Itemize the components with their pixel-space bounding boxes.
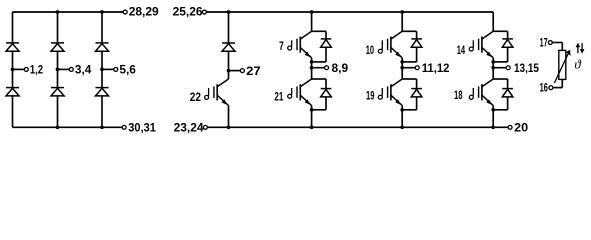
terminal 16 (549, 86, 553, 90)
label 20 (514, 121, 528, 135)
svg-text:11,12: 11,12 (422, 61, 450, 75)
svg-text:23,24: 23,24 (174, 121, 204, 135)
wire bridge leg3 mid-lower (101, 69, 103, 87)
junction diode return (phase V top) (400, 60, 404, 64)
junction DC+ at phase V leg (400, 10, 404, 14)
terminal 28,29 (123, 10, 127, 14)
junction DC- at phase U leg (310, 125, 314, 129)
thermistor down arrow (580, 43, 585, 54)
transistor (IGBT) 18 (469, 79, 493, 106)
label 28,29 (129, 5, 159, 19)
wire phase U leg to DC- (311, 106, 313, 128)
label 8,9 (332, 61, 349, 75)
wire bridge leg3 upper (101, 12, 103, 42)
label 3,4 (75, 63, 92, 77)
label 10 (366, 43, 375, 57)
thermistor up arrow (576, 43, 581, 54)
wire diode branch top (phase V) (416, 31, 418, 38)
junction DC+ at brake leg (227, 10, 231, 14)
wire bridge leg1 upper (12, 12, 14, 42)
wire phase W mid (492, 58, 494, 79)
node output junction (phase W) (491, 66, 506, 70)
terminal 3,4 (69, 67, 73, 71)
junction diode return (phase U top) (310, 60, 314, 64)
terminal 23,24 (203, 125, 207, 129)
diode D18 (antiparallel, phase W bottom) (502, 89, 513, 97)
terminal 1,2 (24, 67, 28, 71)
svg-text:19: 19 (366, 89, 375, 103)
terminal 20 (508, 125, 512, 129)
wire bridge leg1 lower (12, 96, 14, 127)
junction DC- at brake leg (227, 125, 231, 129)
svg-text:14: 14 (457, 43, 466, 57)
transistor (IGBT) 10 (378, 31, 402, 58)
wire diode branch to joint (phase U top) (312, 48, 326, 62)
diode D1t (bridge leg1 top) (6, 43, 19, 51)
wire phase U leg from DC+ (311, 12, 313, 31)
diode D14 (antiparallel, phase W top) (502, 39, 513, 47)
terminal 8,9 (325, 66, 329, 70)
wire DC+ rail of inverter (206, 11, 493, 13)
wire phase V leg from DC+ (401, 12, 403, 31)
wire terminal 17 to thermistor (552, 43, 562, 51)
terminal 13,15 (506, 66, 510, 70)
junction diode return (phase V bottom) (400, 108, 404, 112)
wire diode to joint (phase W bottom) (493, 97, 507, 110)
wire phase V leg to DC- (401, 106, 403, 128)
label 14 (457, 43, 466, 57)
node phase U top collector (312, 30, 326, 32)
diode D1b (bridge leg1 bottom) (6, 88, 19, 96)
wire diode branch to joint (phase W top) (493, 48, 507, 62)
svg-text:5,6: 5,6 (119, 63, 136, 77)
thermistor characteristic arrow (554, 50, 570, 83)
wire brake leg upper (228, 12, 230, 42)
wire diode to joint (phase U bottom) (312, 97, 326, 110)
wire terminal 16 to thermistor (553, 79, 562, 87)
svg-text:ϑ: ϑ (574, 57, 581, 72)
label 17 (540, 36, 548, 50)
wire bridge leg1 mid-lower (12, 69, 14, 87)
label 5,6 (119, 63, 136, 77)
label 30,31 (128, 121, 156, 135)
wire DC- rail of inverter (207, 126, 508, 128)
junction DC- at phase V leg (400, 125, 404, 129)
wire phase V mid (401, 58, 403, 79)
svg-text:30,31: 30,31 (128, 121, 156, 135)
wire phase W leg from DC+ (492, 12, 494, 31)
terminal 11,12 (415, 66, 419, 70)
svg-text:21: 21 (274, 89, 283, 103)
thermistor R(theta) body (559, 50, 566, 79)
wire diode branch to joint (phase V top) (402, 48, 416, 62)
junction on bridge + rail leg3 (100, 10, 104, 14)
svg-text:16: 16 (540, 81, 548, 95)
node AC tap 3,4 (56, 68, 70, 72)
label 7 (279, 39, 284, 53)
diode D2b (bridge leg2 bottom) (51, 88, 64, 96)
diode D10 (antiparallel, phase V top) (411, 39, 422, 47)
wire diode branch top (phase W) (507, 31, 509, 38)
wire bridge leg3 mid-upper (101, 51, 103, 69)
label 13,15 (514, 61, 539, 75)
transistor (IGBT) 21 (288, 79, 312, 106)
label 22 (190, 90, 201, 104)
wire brake IGBT emitter to DC- (228, 106, 230, 128)
svg-text:27: 27 (246, 64, 261, 78)
wire brake leg to node 27 (228, 51, 230, 70)
junction on bridge - rail leg3 (100, 125, 104, 129)
junction on bridge + rail leg2 (56, 10, 60, 14)
wire DC+ rail of rectifier bridge (13, 11, 124, 13)
diode D7 (antiparallel, phase U top) (321, 39, 332, 47)
wire diode branch bottom (phase U) (325, 79, 327, 88)
label 19 (366, 89, 375, 103)
wire bridge leg2 lower (57, 96, 59, 127)
svg-text:7: 7 (279, 39, 284, 53)
svg-text:1,2: 1,2 (30, 63, 43, 77)
label 23,24 (174, 121, 204, 135)
svg-text:20: 20 (514, 121, 528, 135)
diode D22 (brake freewheel) (222, 43, 235, 51)
label 16 (540, 81, 548, 95)
svg-text:18: 18 (454, 88, 463, 102)
svg-text:25,26: 25,26 (173, 5, 203, 19)
svg-text:8,9: 8,9 (332, 61, 349, 75)
node output junction (phase U) (310, 66, 325, 70)
node phase W bottom collector (493, 78, 507, 80)
node phase U bottom collector (312, 78, 326, 80)
junction DC- at phase W leg (491, 125, 495, 129)
wire diode branch bottom (phase V) (416, 79, 418, 88)
label 1,2 (30, 63, 43, 77)
diode D2t (bridge leg2 top) (51, 43, 64, 51)
junction on bridge - rail leg2 (56, 125, 60, 129)
label 18 (454, 88, 463, 102)
diode D21 (antiparallel, phase U bottom) (321, 89, 332, 97)
label 21 (274, 89, 283, 103)
svg-text:10: 10 (366, 43, 375, 57)
diode D3b (bridge leg3 bottom) (96, 88, 109, 96)
transistor (IGBT) 19 (378, 79, 402, 106)
wire bridge leg2 mid-lower (57, 69, 59, 87)
wire bridge leg3 lower (101, 96, 103, 127)
node phase V bottom collector (402, 78, 416, 80)
terminal 30,31 (122, 125, 126, 129)
transistor (IGBT) 7 (288, 31, 312, 58)
svg-text:22: 22 (190, 90, 201, 104)
wire bridge leg1 mid-upper (12, 51, 14, 69)
node phase W top collector (493, 30, 507, 32)
node AC tap 1,2 (11, 68, 25, 72)
wire node 27 to brake IGBT collector (228, 71, 230, 79)
label 11,12 (422, 61, 450, 75)
label 27 (246, 64, 261, 78)
svg-text:13,15: 13,15 (514, 61, 539, 75)
transistor (IGBT) 14 (469, 31, 493, 58)
wire diode branch top (phase U) (325, 31, 327, 38)
transistor (IGBT) 22 (205, 79, 229, 106)
wire diode branch bottom (phase W) (507, 79, 509, 88)
wire DC- rail of rectifier bridge (13, 126, 123, 128)
terminal 25,26 (202, 10, 206, 14)
junction DC+ at phase U leg (310, 10, 314, 14)
diode D19 (antiparallel, phase V bottom) (411, 89, 422, 97)
node phase V top collector (402, 30, 416, 32)
svg-text:3,4: 3,4 (75, 63, 92, 77)
svg-text:17: 17 (540, 36, 548, 50)
wire phase U mid (311, 58, 313, 79)
wire diode to joint (phase V bottom) (402, 97, 416, 110)
node AC tap 5,6 (100, 68, 114, 72)
wire bridge leg2 upper (57, 12, 59, 42)
junction diode return (phase W top) (491, 60, 495, 64)
terminal 5,6 (114, 67, 118, 71)
junction diode return (phase U bottom) (310, 108, 314, 112)
wire bridge leg2 mid-upper (57, 51, 59, 69)
junction diode return (phase W bottom) (491, 108, 495, 112)
diode D3t (bridge leg3 top) (96, 43, 109, 51)
terminal 17 (548, 41, 552, 45)
node 27 junction (227, 69, 241, 73)
label theta (574, 57, 581, 72)
svg-text:28,29: 28,29 (129, 5, 159, 19)
terminal 27 (240, 69, 244, 73)
node output junction (phase V) (400, 66, 415, 70)
wire phase W leg to DC- (492, 106, 494, 128)
label 25,26 (173, 5, 203, 19)
